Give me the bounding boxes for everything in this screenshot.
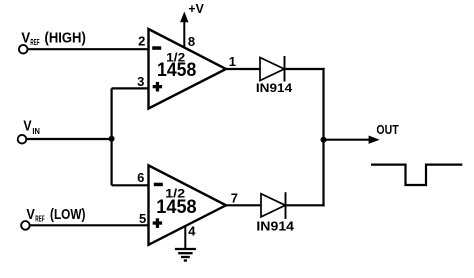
waveform output pulse: [371, 165, 462, 185]
diode D1 triangle: [260, 58, 284, 81]
wire pin 7 to diode D2: [225, 204, 261, 206]
junction VIN: [109, 136, 115, 142]
node VIN label: [23, 119, 40, 136]
wire vertical VIN split: [110, 88, 112, 185]
op-amp U1A plus input: [153, 82, 162, 92]
diode D2 triangle: [261, 194, 285, 217]
svg-text:(LOW): (LOW): [50, 207, 86, 223]
wire VREF(LOW) to pin 5: [30, 224, 150, 226]
svg-text:REF: REF: [35, 213, 44, 223]
svg-text:(HIGH): (HIGH): [45, 30, 86, 46]
wire OUT arrow: [324, 139, 372, 141]
node VREF(LOW) label: [26, 207, 85, 224]
ground: [175, 249, 196, 261]
svg-text:OUT: OUT: [376, 122, 398, 137]
svg-text:7: 7: [231, 191, 238, 206]
svg-text:+V: +V: [188, 1, 204, 16]
svg-text:IN914: IN914: [256, 81, 293, 95]
svg-text:V: V: [23, 119, 31, 135]
svg-text:1458: 1458: [157, 60, 196, 81]
svg-text:5: 5: [139, 211, 146, 226]
wire to pin 3: [112, 87, 150, 89]
wire VREF(HIGH) to pin 2: [28, 48, 150, 50]
OUT arrowhead: [369, 136, 380, 144]
svg-text:IN: IN: [32, 126, 40, 136]
svg-text:3: 3: [137, 74, 144, 89]
wire diode D2 to bus: [286, 204, 325, 206]
svg-text:V: V: [21, 30, 30, 46]
wire diode D1 to bus: [285, 68, 325, 70]
node VREF(HIGH) terminal: [19, 45, 28, 54]
node VIN terminal: [18, 135, 27, 144]
node VREF(HIGH) label: [21, 30, 86, 47]
svg-text:2: 2: [138, 33, 145, 48]
junction OUT: [321, 137, 327, 143]
svg-text:8: 8: [188, 34, 195, 49]
power +V wire: [183, 21, 185, 48]
node VREF(LOW) terminal: [21, 221, 30, 230]
diode D1 cathode bar: [284, 56, 286, 82]
svg-text:1: 1: [229, 54, 236, 69]
op-amp U1A minus input: [152, 46, 161, 50]
wire pin 1 to diode D1: [225, 68, 260, 70]
wire VIN to junction: [26, 138, 111, 140]
diode D2 cathode bar: [285, 192, 287, 219]
svg-text:4: 4: [188, 224, 196, 239]
op-amp U1B minus input: [154, 183, 163, 187]
op-amp U1A triangle: [149, 29, 227, 109]
wire output bus vertical: [322, 68, 324, 207]
svg-text:IN914: IN914: [256, 220, 294, 234]
wire pin 4 to ground: [184, 226, 186, 249]
op-amp U1B triangle: [149, 165, 227, 244]
power +V arrowhead: [180, 12, 188, 23]
op-amp U1B plus input: [153, 218, 162, 228]
svg-text:6: 6: [137, 170, 144, 185]
svg-text:1458: 1458: [156, 197, 196, 218]
svg-text:REF: REF: [30, 37, 39, 47]
svg-text:V: V: [26, 207, 35, 223]
wire to pin 6: [112, 184, 150, 186]
